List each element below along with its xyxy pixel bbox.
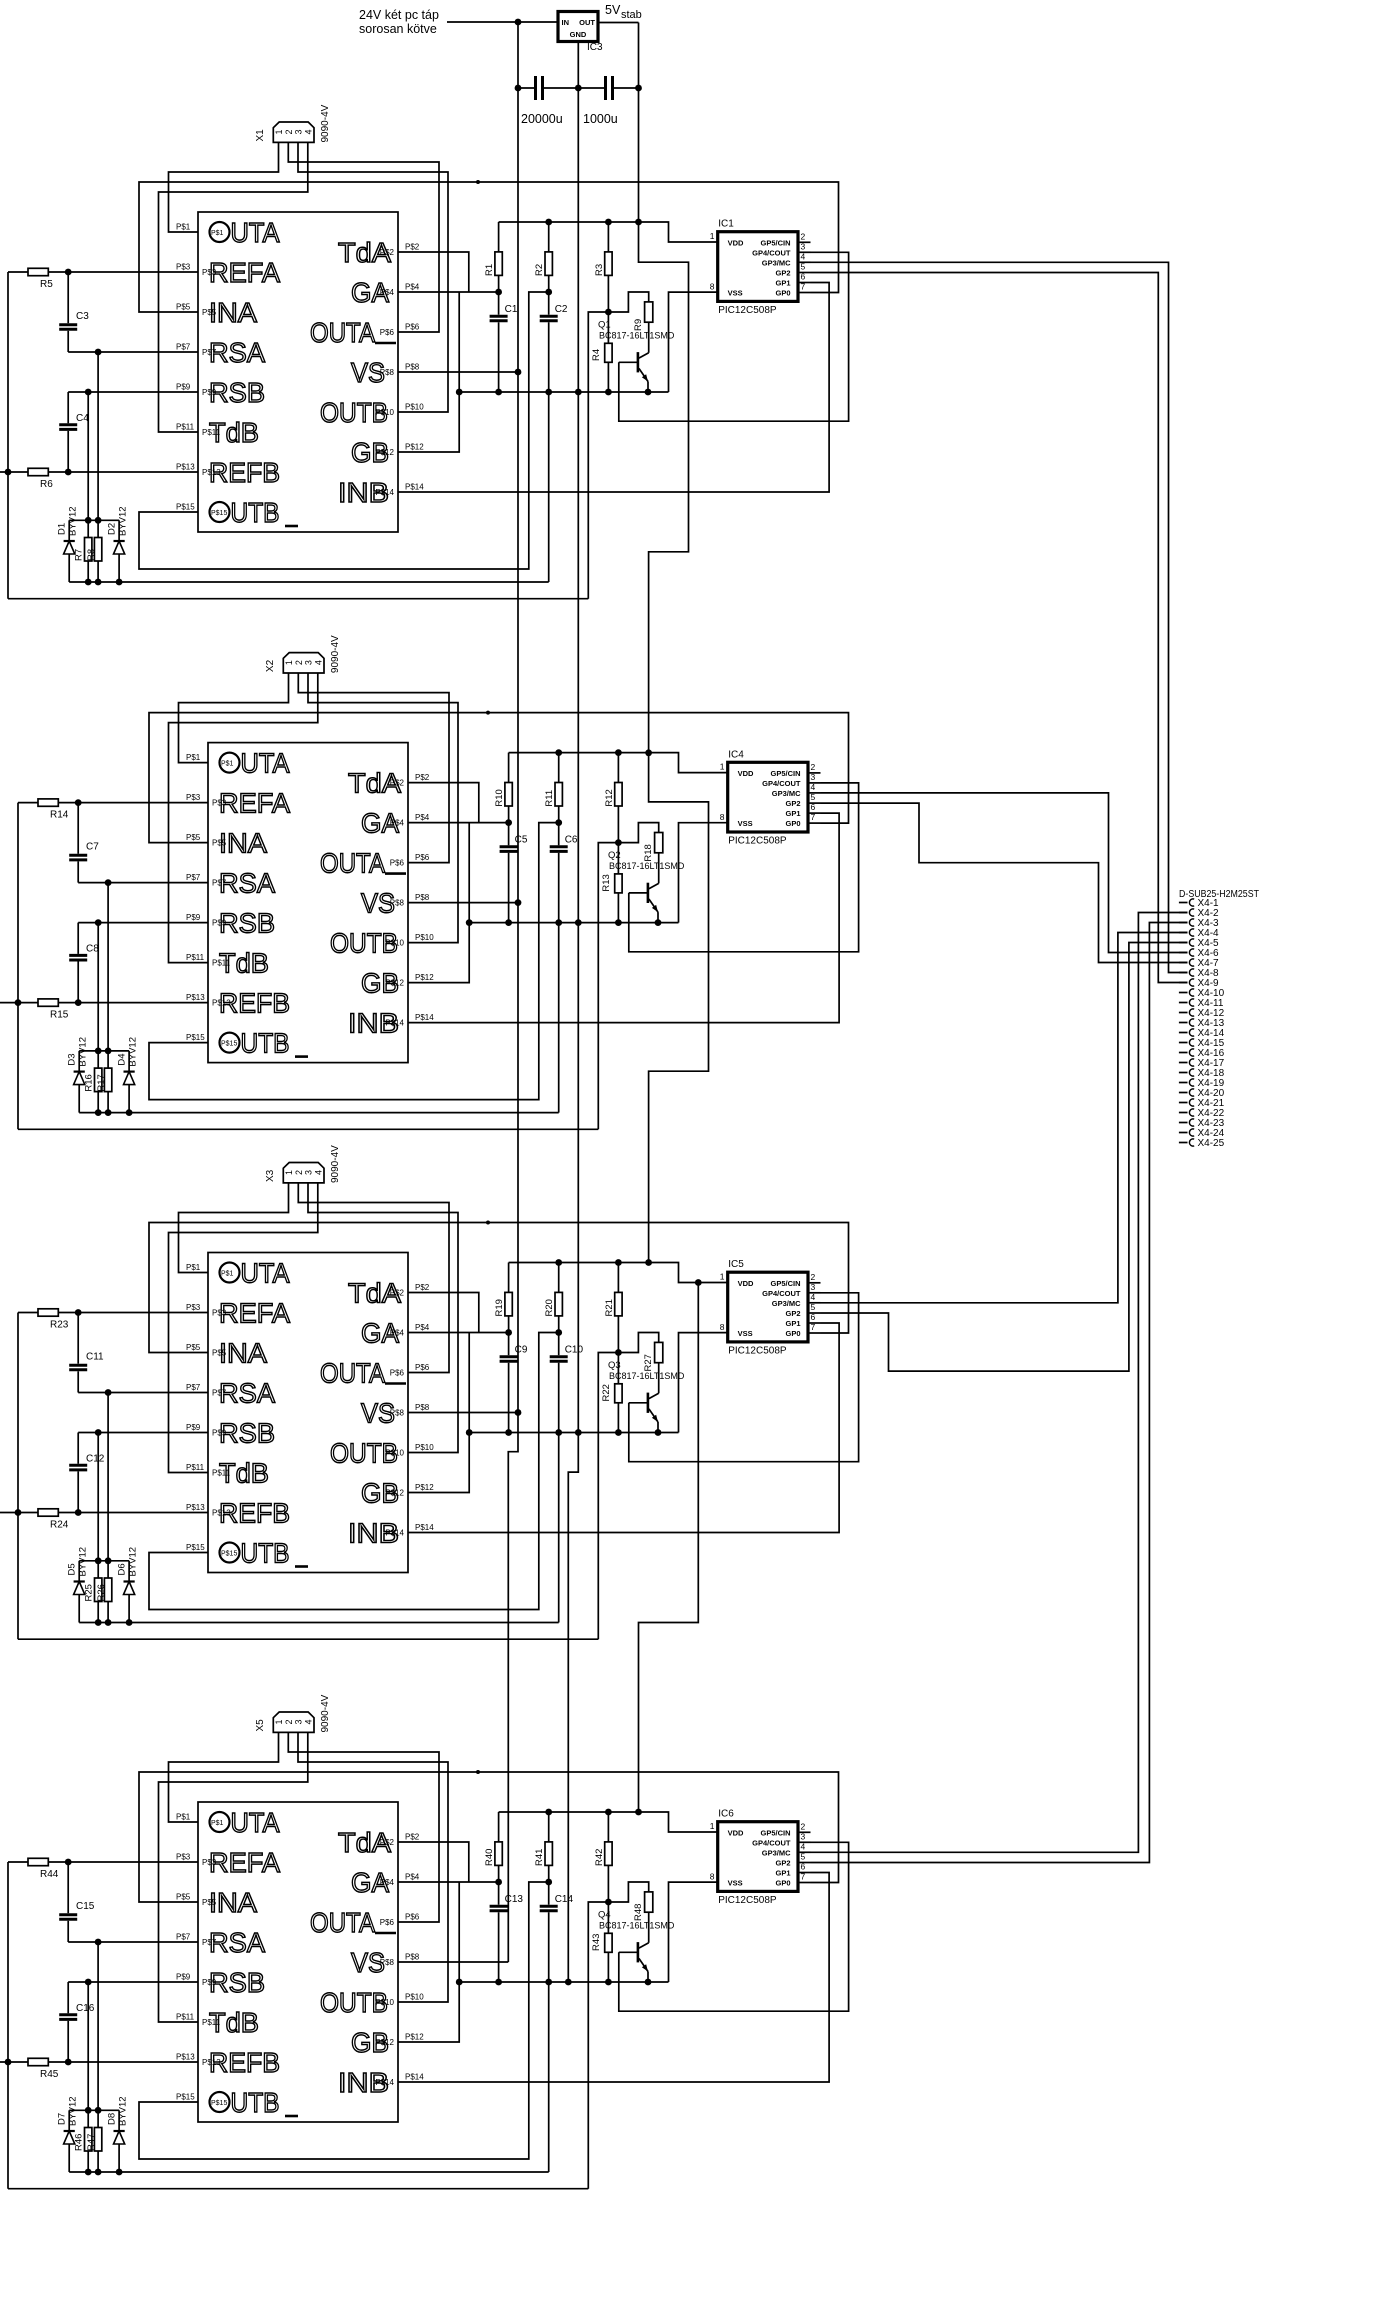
svg-text:GP2: GP2	[775, 1859, 790, 1868]
svg-text:R9: R9	[633, 319, 644, 331]
svg-text:P$14: P$14	[405, 2073, 424, 2082]
svg-text:2: 2	[811, 1272, 816, 1282]
svg-text:P$11: P$11	[186, 953, 205, 962]
pin stub GP0	[808, 1332, 821, 1334]
svg-text:Q3: Q3	[608, 1360, 621, 1371]
svg-text:C10: C10	[565, 1345, 584, 1356]
svg-text:VSS: VSS	[728, 1879, 743, 1888]
pin stub GP2	[798, 272, 811, 274]
svg-text:P$8: P$8	[415, 1403, 430, 1412]
wire OUTB_ to node	[139, 292, 549, 569]
svg-text:P$9: P$9	[186, 913, 201, 922]
wire INB to GP1	[398, 1873, 829, 2083]
wire GP2 block1 to X4-9	[811, 273, 1188, 983]
junction	[555, 749, 562, 756]
resistor R40	[498, 1812, 500, 1842]
svg-text:P$1: P$1	[176, 223, 191, 232]
svg-text:P$3: P$3	[186, 1303, 201, 1312]
svg-text:3: 3	[294, 1719, 304, 1724]
svg-text:P$15: P$15	[186, 1033, 205, 1042]
svg-text:R22: R22	[601, 1384, 612, 1401]
pin label OUTA_ underscore	[385, 872, 406, 875]
resistor R2	[548, 222, 550, 252]
svg-text:P$3: P$3	[202, 1858, 217, 1867]
svg-text:P$2: P$2	[380, 248, 395, 257]
wire TdA-node drop	[588, 312, 608, 599]
wire X pin1 to OUTA	[169, 142, 279, 232]
svg-text:1: 1	[274, 1719, 284, 1724]
wire RSB drop	[97, 1433, 99, 1561]
junction	[545, 1809, 552, 1816]
svg-text:GP1: GP1	[785, 1319, 800, 1328]
svg-text:R18: R18	[643, 844, 654, 861]
wire VDD rail	[509, 753, 728, 773]
pin stub VDD	[717, 1831, 719, 1833]
wire X pin3 to OUTB	[298, 1732, 448, 2002]
wire GND bus	[568, 42, 578, 1983]
svg-text:P$11: P$11	[212, 1469, 231, 1478]
svg-text:Q1: Q1	[598, 320, 611, 331]
wire INB to GP1	[408, 813, 839, 1023]
svg-text:P$12: P$12	[385, 979, 404, 988]
pin X4-20	[1179, 1092, 1188, 1094]
svg-text:P$5: P$5	[212, 839, 227, 848]
junction	[605, 219, 612, 226]
resistor R21	[617, 1263, 619, 1293]
svg-text:RSA: RSA	[209, 337, 265, 368]
svg-text:D2: D2	[107, 523, 118, 535]
wire VDD rail	[499, 222, 718, 242]
svg-text:BC817-16LT1SMD: BC817-16LT1SMD	[609, 861, 685, 871]
connector X1	[273, 122, 314, 142]
pin stub GP2	[808, 802, 821, 804]
junction	[495, 389, 502, 396]
svg-text:P$12: P$12	[405, 2033, 424, 2042]
svg-text:R41: R41	[534, 1849, 545, 1866]
svg-text:8: 8	[720, 1322, 725, 1332]
resistor R11	[558, 753, 560, 783]
wire X pin2 to OUTA_	[298, 673, 449, 863]
wire RSA row	[68, 351, 198, 353]
svg-text:RSA: RSA	[209, 1927, 265, 1958]
svg-text:P$4: P$4	[405, 1873, 420, 1882]
svg-text:4: 4	[313, 660, 323, 665]
svg-text:P$9: P$9	[202, 388, 217, 397]
svg-text:P$14: P$14	[415, 1523, 434, 1532]
svg-text:P$11: P$11	[176, 2013, 195, 2022]
svg-text:OUTA: OUTA	[310, 317, 375, 348]
pin X4-23	[1179, 1122, 1188, 1124]
svg-text:P$9: P$9	[202, 1978, 217, 1987]
svg-text:OUTA: OUTA	[320, 848, 385, 879]
wire RSB row	[68, 1981, 198, 1983]
wire diode gnd rail	[69, 2171, 549, 2173]
svg-text:P$12: P$12	[375, 448, 394, 457]
svg-text:P$13: P$13	[176, 463, 195, 472]
svg-text:P$7: P$7	[186, 1383, 201, 1392]
resistor R13	[617, 843, 619, 874]
svg-text:P$14: P$14	[405, 483, 424, 492]
junction	[505, 919, 512, 926]
junction tick	[486, 711, 490, 715]
svg-text:R40: R40	[484, 1849, 495, 1866]
svg-text:R20: R20	[544, 1299, 555, 1316]
resistor R43	[607, 1902, 609, 1933]
pin stub GP4/COUT	[798, 251, 811, 253]
resistor R4	[607, 312, 609, 343]
wire GP3 block4 to X4-2	[811, 913, 1188, 1853]
capacitor C6	[558, 823, 560, 846]
svg-text:GP5/CIN: GP5/CIN	[760, 239, 790, 248]
wire bottom line	[8, 598, 588, 600]
junction	[75, 799, 82, 806]
svg-text:X1: X1	[255, 129, 266, 142]
resistor R6	[0, 471, 28, 473]
junction	[605, 1979, 612, 1986]
pin stub GP4/COUT	[808, 782, 821, 784]
svg-text:UTA: UTA	[241, 748, 290, 779]
resistor R18	[618, 823, 658, 843]
pin stub GP0	[798, 1882, 811, 1884]
wire left rail	[17, 803, 19, 1130]
junction	[105, 879, 112, 886]
svg-text:1: 1	[274, 129, 284, 134]
svg-text:P$14: P$14	[415, 1013, 434, 1022]
svg-text:P$1: P$1	[211, 230, 224, 237]
svg-text:P$8: P$8	[390, 899, 405, 908]
junction	[545, 389, 552, 396]
junction	[655, 919, 662, 926]
svg-text:R4: R4	[591, 349, 602, 361]
svg-text:P$4: P$4	[390, 819, 405, 828]
svg-text:C9: C9	[515, 1345, 528, 1356]
svg-text:P$8: P$8	[380, 368, 395, 377]
junction	[95, 349, 102, 356]
wire X pin4 to TdB	[159, 142, 308, 432]
svg-text:GP3/MC: GP3/MC	[772, 789, 801, 798]
wire RSB row	[68, 391, 198, 393]
wire base to GP4	[619, 1842, 849, 2011]
resistor R22	[617, 1353, 619, 1384]
svg-text:P$5: P$5	[202, 1898, 217, 1907]
svg-text:UTA: UTA	[231, 217, 280, 248]
wire gnd rail riser	[548, 392, 550, 582]
svg-text:20000u: 20000u	[521, 112, 563, 126]
wire REFB row	[68, 471, 198, 473]
wire RSB drop	[87, 392, 89, 520]
wire 5V jog block2 to block3	[649, 753, 709, 1263]
resistor R16	[97, 1051, 99, 1068]
svg-text:P$5: P$5	[212, 1349, 227, 1358]
svg-text:R43: R43	[591, 1934, 602, 1951]
resistor R25	[97, 1561, 99, 1578]
wire GA net	[408, 822, 509, 824]
wire REFA row	[78, 802, 208, 804]
capacitor C5	[508, 823, 510, 846]
wire INA net to GP0	[139, 1772, 839, 1902]
svg-text:P$8: P$8	[390, 1409, 405, 1418]
svg-text:1000u: 1000u	[583, 112, 618, 126]
wire base to GP4	[619, 252, 849, 421]
resistor R12	[617, 753, 619, 783]
junction 24V node	[515, 19, 522, 26]
svg-text:GP4/COUT: GP4/COUT	[752, 1839, 791, 1848]
svg-text:2: 2	[801, 1822, 806, 1832]
svg-text:INA: INA	[209, 297, 257, 328]
svg-text:P$12: P$12	[385, 1489, 404, 1498]
wire VSS net	[669, 1882, 718, 1982]
svg-text:P$6: P$6	[380, 328, 395, 337]
pin stub VDD	[727, 772, 729, 774]
junction	[605, 389, 612, 396]
svg-text:P$10: P$10	[415, 933, 434, 942]
junction	[85, 517, 92, 524]
wire X pin3 to OUTB	[308, 673, 458, 943]
junction VS taps on 24V bus	[515, 369, 522, 376]
svg-text:C14: C14	[555, 1894, 574, 1905]
wire X pin1 to OUTA	[179, 673, 289, 763]
svg-text:9090-4V: 9090-4V	[320, 1694, 331, 1732]
amplifier IC box block	[208, 1253, 408, 1573]
wire X pin1 to OUTA	[179, 1183, 289, 1273]
junction caps	[515, 85, 522, 92]
wire VS net	[408, 902, 518, 904]
pin stub GP0	[808, 822, 821, 824]
svg-text:P$15: P$15	[186, 1543, 205, 1552]
wire 24V down to cap	[517, 22, 519, 88]
pin stub VSS	[727, 1332, 729, 1334]
svg-text:P$12: P$12	[405, 443, 424, 452]
resistor R46	[87, 2110, 89, 2127]
svg-text:P$6: P$6	[390, 859, 405, 868]
svg-text:P$3: P$3	[176, 263, 191, 272]
svg-text:RSB: RSB	[219, 908, 275, 939]
wire RSB drop	[97, 923, 99, 1051]
svg-text:D-SUB25-H2M25ST: D-SUB25-H2M25ST	[1179, 889, 1259, 900]
pin stub VSS	[717, 291, 719, 293]
capacitor C7	[77, 803, 79, 854]
junction	[95, 1429, 102, 1436]
svg-text:P$11: P$11	[212, 959, 231, 968]
svg-text:P$5: P$5	[176, 1893, 191, 1902]
svg-text:P$13: P$13	[176, 2053, 195, 2062]
svg-text:P$15: P$15	[211, 2100, 227, 2107]
wire GB net	[398, 292, 459, 452]
wire GP2 block3 to X4-5	[821, 943, 1188, 1372]
wire base to GP4	[629, 783, 859, 952]
wire VDD rail	[509, 1263, 728, 1283]
capacitor 20000u	[518, 87, 535, 89]
wire VS net	[408, 1412, 518, 1414]
pin X4-3	[1179, 922, 1188, 924]
wire base to GP4	[629, 1293, 859, 1462]
svg-text:R45: R45	[40, 2069, 59, 2080]
junction	[605, 1809, 612, 1816]
svg-text:stab: stab	[621, 9, 642, 21]
svg-text:BYV12: BYV12	[128, 1037, 139, 1067]
svg-text:8: 8	[720, 812, 725, 822]
svg-text:sorosan kötve: sorosan kötve	[359, 22, 437, 36]
svg-text:5V: 5V	[605, 3, 621, 17]
svg-text:R7: R7	[74, 549, 85, 561]
wire X pin2 to OUTA_	[298, 1183, 449, 1373]
svg-text:R47: R47	[86, 2134, 97, 2151]
pin X4-24	[1179, 1132, 1188, 1134]
junction	[456, 389, 463, 396]
svg-text:2: 2	[294, 1170, 304, 1175]
wire left rail	[7, 1862, 9, 2189]
pin stub GP5/CIN	[808, 1282, 821, 1284]
wire gnd rail riser	[558, 1433, 560, 1623]
svg-text:4: 4	[303, 129, 313, 134]
wire X pin4 to TdB	[169, 1183, 318, 1473]
svg-text:P$9: P$9	[176, 1973, 191, 1982]
svg-text:D5: D5	[67, 1563, 78, 1575]
wire emitter to gnd	[647, 382, 649, 393]
pin stub GP5/CIN	[798, 1831, 811, 1833]
wire VSS net	[679, 1333, 728, 1433]
svg-text:P$6: P$6	[405, 1913, 420, 1922]
svg-text:UTA: UTA	[231, 1807, 280, 1838]
svg-text:P$8: P$8	[405, 363, 420, 372]
wire diode gnd rail	[69, 581, 549, 583]
pin stub GP3/MC	[798, 261, 811, 263]
pin X4-2	[1179, 912, 1188, 914]
junction	[95, 1939, 102, 1946]
svg-text:P$12: P$12	[375, 2038, 394, 2047]
svg-text:D8: D8	[107, 2113, 118, 2125]
junction	[615, 1259, 622, 1266]
wire GP3 block1 to X4-8	[811, 262, 1188, 972]
junction	[466, 1429, 473, 1436]
transistor Q2	[647, 883, 650, 903]
pin stub VSS	[727, 822, 729, 824]
pin stub GP5/CIN	[808, 772, 821, 774]
svg-text:C11: C11	[86, 1352, 104, 1363]
svg-text:P$7: P$7	[212, 1389, 227, 1398]
svg-text:3: 3	[304, 660, 314, 665]
connector X2	[283, 653, 324, 673]
svg-text:C13: C13	[505, 1894, 524, 1905]
pin stub GP3/MC	[808, 792, 821, 794]
wire IC3 OUT to 5V	[598, 22, 639, 24]
microcontroller IC4	[728, 762, 808, 832]
svg-text:IC6: IC6	[718, 1809, 734, 1820]
pin label OUTA	[210, 222, 230, 242]
wire GP3 block2 to X4-6	[821, 793, 1188, 953]
resistor R20	[558, 1263, 560, 1293]
svg-text:P$14: P$14	[375, 488, 394, 497]
resistor R8	[97, 520, 99, 537]
svg-text:R15: R15	[50, 1010, 69, 1021]
svg-text:C7: C7	[86, 842, 99, 853]
wire TdA net	[398, 252, 469, 292]
capacitor C16	[67, 1982, 69, 2013]
wire OUTB_ to node	[149, 823, 559, 1100]
svg-text:OUTA: OUTA	[320, 1358, 385, 1389]
svg-text:P$10: P$10	[415, 1443, 434, 1452]
junction	[505, 1429, 512, 1436]
svg-text:D3: D3	[67, 1053, 78, 1065]
wire INB to GP1	[408, 1323, 839, 1533]
svg-text:BYV12: BYV12	[78, 1037, 89, 1067]
svg-text:P$13: P$13	[202, 468, 221, 477]
svg-text:8: 8	[710, 282, 715, 292]
wire REFA row	[68, 271, 198, 273]
svg-text:Q2: Q2	[608, 850, 621, 861]
wire RSB row	[78, 1432, 208, 1434]
svg-text:P$1: P$1	[221, 1271, 234, 1278]
junction	[5, 2059, 12, 2066]
wire VS net	[398, 371, 518, 373]
pin X4-22	[1179, 1112, 1188, 1114]
svg-text:P$14: P$14	[385, 1019, 404, 1028]
svg-text:P$8: P$8	[405, 1953, 420, 1962]
wire X pin2 to OUTA_	[288, 1732, 439, 1922]
pin X4-19	[1179, 1082, 1188, 1084]
resistor R41	[548, 1812, 550, 1842]
junction	[95, 1557, 102, 1564]
junction	[65, 1859, 72, 1866]
svg-text:P$6: P$6	[390, 1369, 405, 1378]
svg-text:INA: INA	[219, 828, 267, 859]
svg-text:P$5: P$5	[176, 303, 191, 312]
svg-text:IC5: IC5	[728, 1259, 744, 1270]
wire between caps	[543, 87, 605, 89]
svg-text:R24: R24	[50, 1520, 69, 1531]
resistor R48	[608, 1882, 648, 1902]
svg-text:P$6: P$6	[415, 1363, 430, 1372]
wire emitter to gnd	[657, 1422, 659, 1433]
svg-text:9090-4V: 9090-4V	[320, 104, 331, 142]
svg-text:P$9: P$9	[212, 1429, 227, 1438]
svg-text:VSS: VSS	[738, 819, 753, 828]
svg-text:P$3: P$3	[212, 799, 227, 808]
wire VSS net	[679, 823, 728, 923]
svg-text:GP4/COUT: GP4/COUT	[752, 249, 791, 258]
junction	[105, 1389, 112, 1396]
junction GND bus taps	[575, 389, 582, 396]
svg-text:P$14: P$14	[385, 1529, 404, 1538]
svg-text:P$4: P$4	[415, 813, 430, 822]
svg-text:R11: R11	[544, 790, 555, 807]
diode D4	[128, 1051, 130, 1072]
pin X4-17	[1179, 1062, 1188, 1064]
svg-text:BYV12: BYV12	[118, 506, 129, 536]
svg-text:D7: D7	[57, 2113, 68, 2125]
wire block gnd rail	[459, 391, 668, 393]
wire bottom line	[8, 2188, 588, 2190]
svg-text:1: 1	[284, 660, 294, 665]
svg-text:3: 3	[294, 129, 304, 134]
svg-text:P$6: P$6	[380, 1918, 395, 1927]
svg-text:RSA: RSA	[219, 868, 275, 899]
svg-text:P$2: P$2	[390, 1289, 405, 1298]
svg-text:UTB: UTB	[231, 2087, 280, 2118]
svg-text:P$2: P$2	[405, 243, 420, 252]
svg-text:P$10: P$10	[375, 408, 394, 417]
capacitor C10	[558, 1333, 560, 1356]
svg-text:P$3: P$3	[212, 1309, 227, 1318]
transistor Q4	[637, 1942, 640, 1962]
svg-text:R19: R19	[494, 1299, 505, 1316]
junction 5V rail taps	[635, 219, 642, 226]
resistor R14	[18, 802, 38, 804]
svg-text:PIC12C508P: PIC12C508P	[728, 1345, 787, 1356]
wire OUTB_ to node	[139, 1882, 549, 2159]
junction	[65, 269, 72, 276]
svg-text:IC3: IC3	[587, 42, 603, 53]
